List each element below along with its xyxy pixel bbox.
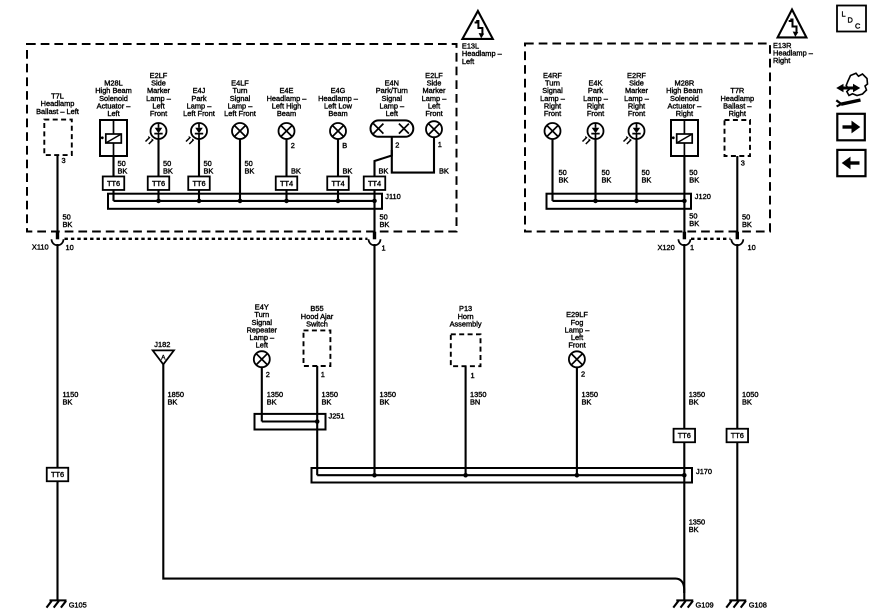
label 50 BK (245, 159, 255, 176)
svg-text:Beam: Beam (277, 109, 296, 118)
svg-text:TT6: TT6 (731, 431, 744, 440)
svg-text:BK: BK (291, 166, 301, 175)
wire E2RF to J120 (635, 139, 637, 201)
wire TT4 through J110 to X110 (373, 190, 375, 232)
svg-text:BK: BK (559, 175, 569, 184)
wire E4N splice to E2LF (392, 137, 434, 173)
svg-text:2: 2 (291, 141, 295, 150)
svg-text:G108: G108 (749, 600, 767, 609)
svg-text:Left: Left (256, 341, 268, 350)
label 50 BK (742, 212, 752, 229)
connector X110 pin 1 (369, 232, 381, 246)
svg-text:J110: J110 (385, 192, 400, 201)
wire M28L to TT6 (112, 156, 114, 177)
junction dot on J251 (315, 419, 320, 424)
svg-text:TT6: TT6 (51, 470, 64, 479)
svg-text:BK: BK (602, 175, 612, 184)
svg-text:BK: BK (742, 220, 752, 229)
svg-text:BK: BK (689, 525, 699, 534)
svg-text:BK: BK (582, 397, 592, 406)
ground G108 (726, 600, 746, 607)
ballast T7R label (720, 86, 754, 118)
svg-text:1: 1 (382, 243, 386, 252)
turn signal lamp E4RF symbol (545, 123, 561, 139)
terminal TT4 (276, 176, 298, 190)
terminal TT6 lower right (727, 429, 749, 443)
label 50 BK (204, 159, 214, 176)
horn assembly P13 dashed box (451, 334, 481, 366)
repeater lamp E4Y symbol (254, 351, 270, 367)
wire E4RF to J120 (551, 139, 553, 201)
label 1850 BK (168, 390, 184, 407)
svg-text:Beam: Beam (328, 109, 347, 118)
junction dots on J170 (372, 473, 686, 478)
svg-text:C: C (855, 22, 861, 31)
wire X120 pin 1 to TT6 (683, 244, 685, 429)
label 50 BK (559, 168, 569, 185)
junction dots on J110 (156, 199, 377, 204)
svg-text:Right: Right (729, 109, 746, 118)
svg-text:A: A (161, 354, 166, 361)
wire TT6 to J110 (198, 190, 200, 201)
LDC legend box (837, 6, 866, 32)
junction dots on J120 (593, 199, 687, 204)
svg-text:X120: X120 (658, 243, 675, 252)
svg-text:B: B (342, 141, 347, 150)
wire E29LF to J170 (576, 367, 578, 475)
splice bus J251 (255, 414, 326, 430)
wire E4G to TT4 (337, 139, 339, 177)
wire E4E to TT4 (285, 139, 287, 177)
svg-text:BK: BK (118, 166, 128, 175)
svg-text:Front: Front (628, 109, 645, 118)
svg-text:BK: BK (267, 397, 277, 406)
terminal TT4 (327, 176, 349, 190)
svg-text:Front: Front (587, 109, 604, 118)
headlamp low beam E4G symbol (330, 123, 346, 139)
wire TT6 to J110 (157, 190, 159, 201)
svg-text:Left: Left (107, 109, 119, 118)
wire X120 pin 10 to TT6 (736, 244, 738, 429)
svg-text:J182: J182 (154, 340, 170, 349)
svg-text:1: 1 (321, 370, 325, 379)
svg-text:BK: BK (642, 175, 652, 184)
label 50 BK below J110 (380, 212, 390, 229)
park lamp E4K symbol (583, 123, 604, 144)
svg-text:1: 1 (438, 140, 442, 149)
back arrow button (837, 150, 865, 176)
label 1350 BK (267, 390, 283, 407)
svg-text:Ballast – Left: Ballast – Left (36, 107, 79, 116)
svg-text:BK: BK (742, 397, 752, 406)
svg-text:BK: BK (163, 166, 173, 175)
headlamp high beam E4E label (267, 86, 308, 118)
svg-text:1: 1 (471, 371, 475, 380)
label 50 BK (163, 159, 173, 176)
splice bus J170 (312, 468, 693, 483)
label 50 BK (642, 168, 652, 185)
svg-text:Switch: Switch (306, 319, 328, 328)
label 50 BK below J120 (689, 212, 699, 229)
terminal TT6 (103, 176, 125, 190)
wire TT6 to ground G105 (56, 481, 58, 600)
fog lamp E29LF label (565, 310, 591, 349)
svg-text:1: 1 (690, 243, 694, 252)
hood ajar switch B55 dashed box (304, 330, 331, 366)
side marker lamp E2LF symbol (146, 123, 167, 144)
svg-text:Front: Front (544, 109, 561, 118)
label 1350 BK (689, 390, 705, 407)
svg-text:D: D (848, 16, 853, 25)
splice bus J110 (108, 194, 382, 209)
svg-text:TT6: TT6 (678, 431, 691, 440)
side marker lamp E2LF label (146, 71, 172, 118)
svg-text:Right: Right (676, 109, 693, 118)
svg-text:Left: Left (386, 109, 398, 118)
wire E4Y to J251 (261, 367, 263, 422)
terminal TT6 (188, 176, 210, 190)
park/turn lamp E4N label (376, 79, 408, 118)
label 50 BK (689, 168, 699, 185)
turn signal lamp E4RF label (540, 71, 566, 118)
wire P13 to J170 (465, 366, 467, 475)
wire E4J to TT6 (198, 139, 200, 177)
svg-text:BK: BK (689, 219, 699, 228)
actuator M28L label (95, 79, 132, 118)
ballast T7L dashed box (44, 120, 72, 156)
actuator M28L symbol (100, 120, 127, 156)
terminal TT6 lower left (47, 468, 69, 482)
wire E2LF to TT6 (157, 139, 159, 177)
label 1350 BK below J170 (689, 518, 705, 535)
svg-text:J170: J170 (696, 467, 712, 476)
connector X110 pin 10 (52, 232, 64, 246)
svg-text:BK: BK (204, 166, 214, 175)
connector X120 dotted line (691, 238, 731, 240)
fog lamp E29LF symbol (569, 351, 585, 367)
harness box E13R dashed outline (525, 44, 770, 232)
svg-text:BK: BK (380, 220, 390, 229)
ground G105 (47, 600, 67, 607)
splice pack J182 symbol (153, 350, 174, 364)
turn signal lamp E4LF symbol (232, 123, 248, 139)
svg-text:J120: J120 (695, 192, 711, 201)
svg-text:3: 3 (62, 156, 66, 165)
svg-text:2: 2 (266, 370, 270, 379)
svg-text:L: L (842, 10, 846, 19)
wire E4K to J120 (594, 139, 596, 201)
wire T7L to X110 (56, 155, 58, 232)
svg-text:BK: BK (322, 397, 332, 406)
svg-text:Left Front: Left Front (224, 109, 256, 118)
wire E4LF to J110 (239, 139, 241, 201)
svg-text:BK: BK (245, 166, 255, 175)
svg-text:X110: X110 (32, 242, 49, 251)
wire TT4 to J110 (337, 190, 339, 201)
svg-text:Left Front: Left Front (183, 109, 215, 118)
tool navigation icon (836, 73, 867, 106)
label 1350 BK (582, 390, 598, 407)
label 50 BK (118, 159, 128, 176)
svg-text:J251: J251 (329, 412, 345, 421)
label 1050 BK (742, 390, 758, 407)
park lamp E4J symbol (186, 123, 207, 144)
svg-text:TT6: TT6 (192, 179, 205, 188)
hood ajar switch B55 label (301, 304, 334, 328)
headlamp high beam E4E symbol (279, 123, 295, 139)
wire E4N jog to TT4 (375, 137, 392, 177)
svg-text:BK: BK (63, 220, 73, 229)
connector X110 dotted line (65, 238, 368, 240)
wire J182 to ground G109 (163, 364, 684, 593)
wire TT6 to ground G108 (736, 442, 738, 600)
terminal TT6 lower middle (674, 429, 696, 443)
svg-text:TT4: TT4 (368, 179, 381, 188)
harness box E13L dashed outline (27, 44, 457, 232)
wire X110 pin 10 to TT6 (56, 244, 58, 468)
park lamp E4K label (583, 79, 609, 118)
svg-text:2: 2 (581, 369, 585, 378)
wire TT6 to J110 (112, 190, 114, 201)
park lamp E4J label (183, 86, 215, 118)
svg-text:Right: Right (773, 56, 790, 65)
svg-text:BK: BK (379, 166, 389, 175)
svg-text:TT6: TT6 (107, 179, 120, 188)
label 50 BK (602, 168, 612, 185)
label 50 BK (63, 212, 73, 229)
svg-text:3: 3 (741, 158, 745, 167)
svg-text:10: 10 (748, 243, 756, 252)
splice bus J120 (547, 194, 692, 209)
label 1350 BN (470, 390, 486, 407)
svg-text:G105: G105 (69, 600, 87, 609)
svg-text:BN: BN (470, 397, 480, 406)
svg-text:TT4: TT4 (280, 179, 293, 188)
terminal TT4 (364, 176, 386, 190)
wire TT6 through J170 to ground G109 (683, 442, 685, 600)
svg-text:Front: Front (425, 109, 442, 118)
wire X110 pin 1 to J170 (373, 244, 375, 475)
forward arrow button (837, 114, 865, 141)
actuator M28R symbol (671, 120, 698, 156)
wire TT4 to J110 (285, 190, 287, 201)
warning triangle right (778, 10, 807, 38)
svg-text:BK: BK (689, 397, 699, 406)
svg-text:Front: Front (568, 341, 585, 350)
svg-text:BK: BK (63, 397, 73, 406)
svg-text:BK: BK (343, 166, 353, 175)
turn signal lamp E4LF label (224, 79, 256, 118)
svg-text:BK: BK (380, 397, 390, 406)
side marker lamp E2LF front symbol (426, 121, 442, 137)
svg-text:Assembly: Assembly (450, 319, 482, 328)
warning triangle left (462, 11, 492, 39)
ballast T7R dashed box (725, 120, 751, 156)
park/turn lamp E4N symbol (371, 120, 414, 136)
wire T7R to X120 (736, 156, 738, 232)
svg-text:BK: BK (168, 397, 178, 406)
terminal TT6 (148, 176, 170, 190)
connector X120 pin 1 (678, 232, 690, 246)
label 1150 BK (63, 390, 79, 407)
label E13L Headlamp - Left (462, 42, 503, 66)
wire M28R through J120 to X120 (683, 156, 685, 232)
svg-text:Front: Front (150, 109, 167, 118)
svg-text:BK: BK (439, 166, 449, 175)
label 1350 BK (380, 390, 396, 407)
repeater lamp E4Y label (247, 303, 278, 350)
wire B55 through J251 to J170 (316, 366, 318, 475)
side marker lamp E2RF label (624, 71, 650, 118)
svg-text:10: 10 (66, 243, 74, 252)
side marker lamp E2LF front label (422, 71, 448, 118)
connector X120 pin 10 (731, 232, 743, 246)
side marker lamp E2RF symbol (624, 123, 645, 144)
svg-text:G109: G109 (696, 600, 714, 609)
horn assembly P13 label (450, 304, 482, 328)
headlamp low beam E4G label (318, 86, 359, 118)
actuator M28R label (666, 79, 703, 118)
label E13R Headlamp - Right (773, 41, 814, 65)
svg-text:BK: BK (689, 175, 699, 184)
svg-text:Left: Left (462, 57, 474, 66)
label 1350 BK (322, 390, 338, 407)
ground G109 (673, 600, 693, 607)
svg-text:TT4: TT4 (331, 179, 344, 188)
ballast T7L label (36, 92, 79, 116)
svg-text:2: 2 (395, 140, 399, 149)
svg-text:TT6: TT6 (152, 179, 165, 188)
